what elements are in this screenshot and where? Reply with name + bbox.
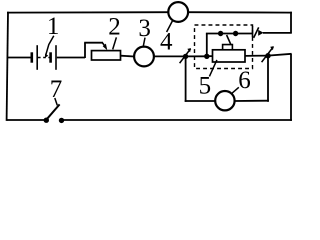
meter 4 circle [168, 2, 188, 22]
wire junction B to potentiometer left terminal [207, 55, 213, 57]
svg-text:6: 6 [238, 67, 251, 94]
svg-text:4: 4 [160, 28, 173, 55]
switch 7 right contact dot [59, 118, 64, 123]
svg-text:2: 2 [108, 13, 121, 40]
battery 1: cell 2 short plate [49, 52, 52, 62]
junction A dot [183, 54, 188, 59]
probe arrowhead at junction C [270, 46, 274, 50]
label 5 pointer [209, 60, 217, 77]
ammeter 3 circle [134, 47, 154, 67]
probe arrow at junction C [262, 47, 274, 62]
dashed box corner solid segment [252, 26, 254, 37]
probe arrowhead on wiper wire [258, 30, 263, 36]
wire wiper branch vertical (junction B up) [206, 34, 208, 57]
wire galvanometer bottom left [185, 100, 216, 102]
switch 7 left contact dot [44, 118, 49, 123]
wire junction A to junction B [186, 55, 207, 57]
label 4 pointer [167, 20, 173, 32]
wire left border [7, 12, 8, 121]
wire right border upper (wiper loop) [290, 12, 292, 34]
svg-text:3: 3 [138, 15, 151, 42]
galvanometer 6 circle [215, 91, 234, 110]
battery 1: cell 1 long plate [36, 45, 38, 70]
wire right border lower (main loop return) [290, 54, 292, 121]
wire potentiometer right terminal to junction C [245, 55, 268, 57]
probe arrow at junction A [180, 49, 191, 64]
svg-text:1: 1 [47, 13, 60, 40]
wiper wire terminal dot left [218, 31, 223, 36]
wiper wire terminal dot right [233, 31, 238, 36]
wire rheostat to ammeter 3 [121, 55, 135, 58]
wire from left border to battery [7, 57, 32, 59]
label 6 pointer [231, 87, 239, 94]
label 7 pointer [55, 98, 58, 105]
dashed enclosure box [195, 25, 253, 69]
svg-text:7: 7 [50, 76, 63, 103]
wire rheostat wiper step horizontal [84, 42, 103, 44]
label 1 arrowhead [45, 54, 48, 58]
label 1 pointer arrow [46, 36, 54, 56]
probe arrow slash on wiper wire [254, 27, 259, 38]
wire bottom border left of switch [7, 119, 45, 121]
battery 1: cell 2 long plate [55, 45, 57, 70]
junction C dot [265, 53, 270, 58]
rheostat wiper arrowhead [103, 44, 108, 51]
wire rheostat wiper step vertical [84, 43, 86, 58]
svg-text:5: 5 [199, 73, 212, 100]
wire junction C to right border [268, 54, 292, 56]
wire galvanometer branch left vertical [185, 56, 187, 101]
rheostat R2 wiper arrow shaft [103, 43, 106, 47]
wire dashed between cells [38, 57, 50, 59]
wire bottom border right of switch [62, 119, 292, 121]
battery 1: cell 1 short plate [30, 52, 33, 62]
wire galvanometer bottom right [235, 100, 269, 102]
potentiometer wiper stem [227, 35, 231, 44]
wire top border left of meter 4 [7, 11, 168, 13]
rheostat 2 body [92, 51, 121, 60]
wire ammeter 3 to junction A [154, 55, 186, 57]
wire wiper arrow to right border [263, 32, 292, 34]
probe arrowhead at junction A [187, 48, 191, 52]
wire top border right of meter 4 [188, 11, 292, 13]
potentiometer 5 body [213, 50, 246, 62]
label 2 pointer [113, 37, 117, 49]
switch 7 lever [46, 104, 60, 120]
wire galvanometer branch right vertical [267, 56, 269, 102]
wire wiper top horizontal [206, 33, 253, 35]
wire battery to rheostat step [57, 57, 85, 59]
label 3 pointer [143, 38, 145, 47]
potentiometer wiper bracket [223, 45, 233, 50]
junction B dot [204, 54, 209, 59]
